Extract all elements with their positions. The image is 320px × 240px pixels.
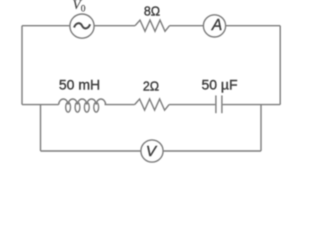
- sine symbol inside source: [74, 23, 90, 28]
- voltmeter V: [141, 140, 163, 162]
- svg-text:8Ω: 8Ω: [144, 5, 160, 19]
- ammeter A: [203, 15, 225, 37]
- wire source to resistor: [94, 25, 135, 27]
- resistor R 2ohm: [135, 99, 170, 110]
- wire resistor to ammeter: [170, 25, 204, 27]
- svg-text:A: A: [211, 17, 222, 34]
- source V0: [70, 14, 94, 38]
- inductor 50 mH humps: [59, 99, 106, 105]
- wire middle left segment: [22, 104, 59, 106]
- svg-text:2Ω: 2Ω: [143, 80, 159, 94]
- inductor loop 4: [94, 102, 99, 112]
- wire resistor2 to capacitor: [169, 104, 215, 106]
- inductor loop 2: [75, 102, 80, 112]
- resistor R 8ohm: [135, 20, 170, 31]
- svg-text:50 µF: 50 µF: [201, 77, 237, 93]
- capacitor left plate: [215, 95, 217, 113]
- svg-text:50 mH: 50 mH: [59, 76, 100, 92]
- wire V-loop left drop: [40, 105, 42, 151]
- wire V-loop bottom right: [163, 150, 261, 152]
- wire inductor to resistor2: [105, 104, 135, 106]
- capacitor right plate: [221, 95, 223, 113]
- inductor loop 3: [84, 102, 89, 112]
- wire right vertical: [279, 26, 281, 105]
- inductor loop 1: [66, 102, 71, 112]
- wire capacitor to right: [223, 104, 281, 106]
- wire top-left segment: [22, 25, 70, 27]
- wire V-loop bottom left: [41, 150, 142, 152]
- wire left vertical: [21, 26, 23, 105]
- svg-text:V: V: [146, 143, 158, 160]
- wire V-loop right rise: [260, 105, 262, 151]
- wire ammeter to corner: [226, 25, 281, 27]
- svg-text:V0: V0: [73, 0, 86, 15]
